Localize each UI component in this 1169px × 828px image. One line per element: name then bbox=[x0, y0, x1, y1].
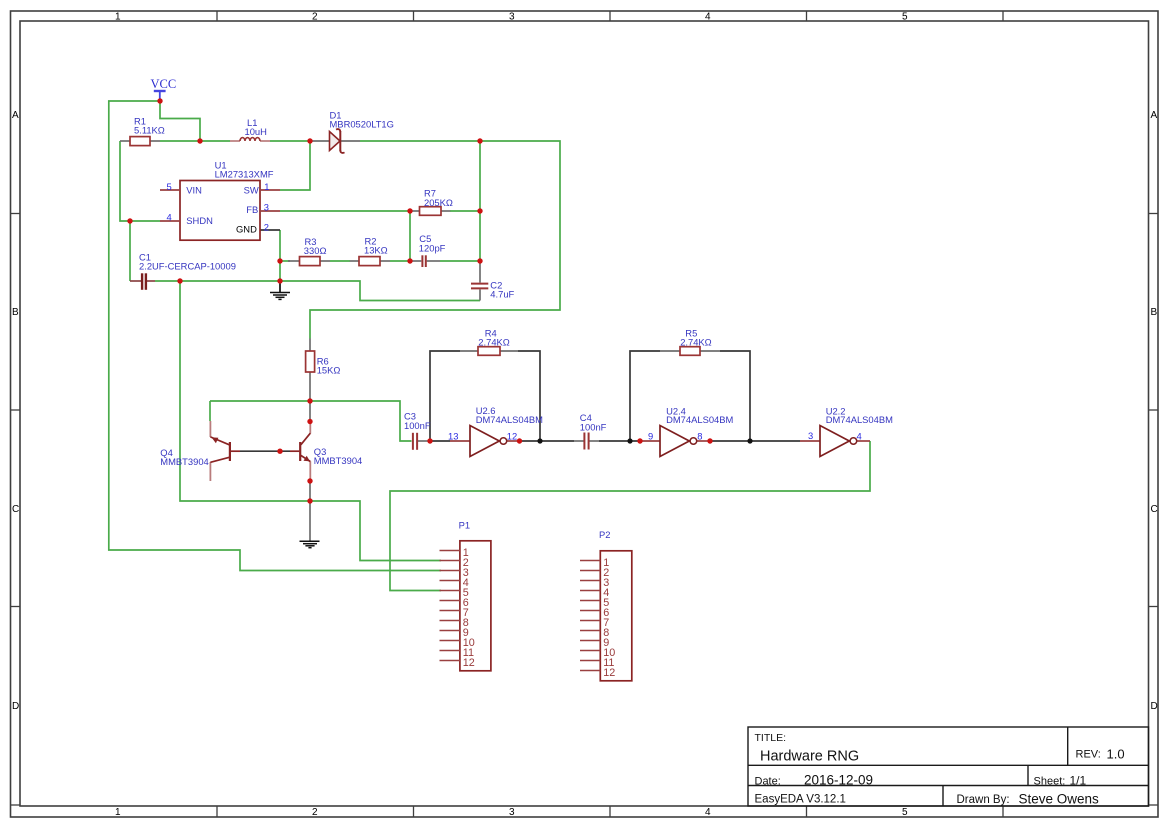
wire VCC elbow to R1 output node bbox=[160, 101, 200, 141]
svg-text:5: 5 bbox=[902, 807, 908, 818]
svg-text:100nF: 100nF bbox=[404, 420, 431, 431]
svg-text:B: B bbox=[12, 307, 19, 318]
svg-text:4.7uF: 4.7uF bbox=[490, 289, 514, 300]
wire Q rail y401 to C3 bbox=[210, 401, 412, 441]
resistor R4 bbox=[460, 327, 518, 355]
svg-text:3: 3 bbox=[808, 430, 813, 441]
svg-text:4: 4 bbox=[705, 12, 711, 23]
resistor R1 bbox=[120, 116, 165, 146]
transistor Q4 MMBT3904 bbox=[160, 421, 240, 481]
wire VCC to P1 pin3 long route bbox=[109, 101, 441, 571]
wire R3 node segment bbox=[280, 260, 290, 262]
node C5 right junction bbox=[477, 258, 482, 263]
svg-text:1: 1 bbox=[115, 807, 121, 818]
pin 1 SW of U1 bbox=[244, 181, 280, 195]
transistor Q3 MMBT3904 bbox=[290, 422, 362, 482]
svg-text:330Ω: 330Ω bbox=[304, 245, 327, 256]
svg-text:DM74ALS04BM: DM74ALS04BM bbox=[476, 414, 543, 425]
svg-text:2: 2 bbox=[312, 12, 318, 23]
wire R5 feedback loop left bbox=[630, 351, 660, 441]
svg-text:12: 12 bbox=[463, 657, 475, 669]
svg-text:Drawn By:: Drawn By: bbox=[957, 794, 1010, 806]
capacitor C2 bbox=[471, 261, 515, 301]
node R2-C5 junction bbox=[407, 258, 412, 263]
svg-text:1: 1 bbox=[115, 12, 121, 23]
svg-text:Steve Owens: Steve Owens bbox=[1019, 792, 1100, 807]
inductor L1 bbox=[230, 117, 270, 141]
svg-text:2: 2 bbox=[312, 807, 318, 818]
capacitor C1 bbox=[130, 252, 236, 290]
node R5 loop right junction bbox=[747, 438, 752, 443]
svg-text:FB: FB bbox=[246, 204, 258, 215]
svg-text:Date:: Date: bbox=[755, 775, 781, 787]
inverter U2.4 DM74ALS04BM bbox=[640, 405, 734, 456]
svg-text:3: 3 bbox=[509, 12, 515, 23]
wire C4 to U2.4 input bbox=[599, 440, 640, 442]
wire L1 to D1 node bbox=[270, 140, 310, 142]
inverter U2.6 DM74ALS04BM bbox=[450, 405, 543, 457]
node R7 output junction bbox=[477, 208, 482, 213]
node gnd rail junction bbox=[307, 498, 312, 503]
svg-text:2: 2 bbox=[264, 221, 269, 232]
wire R4 feedback loop left bbox=[430, 351, 460, 441]
svg-text:13: 13 bbox=[448, 430, 458, 441]
wire SW pin elbow bbox=[280, 141, 310, 190]
node Q3 collector junction bbox=[307, 419, 312, 424]
svg-text:2016-12-09: 2016-12-09 bbox=[804, 773, 873, 788]
svg-text:4: 4 bbox=[857, 430, 862, 441]
wire C3 node to U2.6 input bbox=[430, 440, 450, 442]
pin 3 FB of U1 bbox=[246, 201, 280, 215]
node U2.4 output junction bbox=[707, 438, 712, 443]
wire U2.4 output to U2.2 input bbox=[710, 440, 800, 442]
svg-text:DM74ALS04BM: DM74ALS04BM bbox=[826, 414, 893, 425]
wire R2 to C5 bbox=[390, 260, 410, 262]
node C3 right junction bbox=[427, 438, 432, 443]
svg-text:Sheet:: Sheet: bbox=[1034, 775, 1066, 787]
node Q3 base junction bbox=[277, 449, 282, 454]
svg-text:5: 5 bbox=[167, 181, 172, 192]
svg-text:GND: GND bbox=[236, 224, 257, 235]
wire Q4 emitter up bbox=[209, 401, 211, 421]
node R5 loop left junction bbox=[627, 438, 632, 443]
svg-text:4: 4 bbox=[167, 211, 172, 222]
svg-text:B: B bbox=[1151, 307, 1158, 318]
svg-text:1: 1 bbox=[264, 181, 269, 192]
node R4 loop junction bbox=[537, 438, 542, 443]
wire R5 feedback loop right bbox=[720, 351, 750, 441]
node Q3 emitter junction bbox=[307, 478, 312, 483]
svg-text:120pF: 120pF bbox=[419, 242, 446, 253]
wire Q4 base to Q3 base bbox=[240, 450, 290, 452]
svg-text:8: 8 bbox=[697, 431, 702, 442]
svg-text:A: A bbox=[1151, 110, 1158, 121]
wire C1 line and C2 bottom return bbox=[155, 281, 480, 301]
inverter U2.2 DM74ALS04BM bbox=[800, 406, 893, 457]
wire C1 node down to GND rail and P1 pin2 bbox=[180, 281, 441, 561]
svg-text:D: D bbox=[1151, 701, 1158, 712]
wire FB to R7 bbox=[280, 210, 410, 212]
svg-text:D: D bbox=[12, 701, 19, 712]
wire GND pin elbow down bbox=[279, 230, 281, 281]
node L1-D1 junction bbox=[307, 138, 312, 143]
svg-text:MBR0520LT1G: MBR0520LT1G bbox=[330, 118, 394, 129]
wire U2.2 output to P1 pin5 bbox=[390, 441, 870, 591]
svg-text:P1: P1 bbox=[459, 520, 470, 531]
node FB-R7 junction bbox=[407, 208, 412, 213]
capacitor C4 bbox=[574, 412, 607, 450]
node SHDN junction bbox=[127, 218, 132, 223]
ground at Q3 emitter rail bbox=[300, 501, 320, 548]
resistor R2 bbox=[350, 236, 390, 266]
svg-text:DM74ALS04BM: DM74ALS04BM bbox=[666, 414, 733, 425]
node U2.4 input junction bbox=[637, 438, 642, 443]
wire U2.6 output to C4 bbox=[520, 440, 575, 442]
svg-text:5.11KΩ: 5.11KΩ bbox=[134, 125, 165, 136]
svg-text:VIN: VIN bbox=[186, 184, 202, 195]
svg-text:10uH: 10uH bbox=[245, 126, 267, 137]
svg-text:C: C bbox=[12, 504, 19, 515]
svg-text:Hardware RNG: Hardware RNG bbox=[760, 749, 859, 765]
node output top junction bbox=[477, 138, 482, 143]
svg-text:205KΩ: 205KΩ bbox=[424, 197, 453, 208]
svg-text:VCC: VCC bbox=[151, 77, 177, 91]
svg-text:P2: P2 bbox=[599, 529, 610, 540]
svg-text:C: C bbox=[1151, 504, 1158, 515]
svg-text:EasyEDA V3.12.1: EasyEDA V3.12.1 bbox=[755, 794, 846, 806]
node VCC junction bbox=[157, 98, 162, 103]
svg-text:REV:: REV: bbox=[1076, 748, 1101, 760]
svg-text:2.74KΩ: 2.74KΩ bbox=[478, 337, 510, 348]
svg-text:2.74KΩ: 2.74KΩ bbox=[680, 337, 712, 348]
power flag VCC bbox=[151, 77, 177, 101]
node C1 gnd junction bbox=[277, 278, 282, 283]
wire SHDN junction down to C1 bbox=[129, 221, 131, 281]
svg-text:4: 4 bbox=[705, 807, 711, 818]
wire D1 to output rail and down to R6 bbox=[310, 141, 560, 339]
wire Q3 emitter junction to gnd rail bbox=[309, 481, 311, 501]
svg-text:LM27313XMF: LM27313XMF bbox=[215, 169, 274, 180]
node R6 bottom junction bbox=[307, 398, 312, 403]
svg-text:SHDN: SHDN bbox=[186, 215, 213, 226]
resistor R7 bbox=[410, 188, 453, 216]
svg-text:1/1: 1/1 bbox=[1070, 774, 1087, 788]
svg-text:15KΩ: 15KΩ bbox=[317, 365, 341, 376]
svg-text:2.2UF-CERCAP-10009: 2.2UF-CERCAP-10009 bbox=[139, 261, 236, 272]
svg-text:12: 12 bbox=[603, 667, 615, 679]
svg-text:9: 9 bbox=[648, 431, 653, 442]
wire Q3 collector node to junction bbox=[309, 401, 311, 422]
connector P2 bbox=[580, 529, 632, 681]
svg-text:1.0: 1.0 bbox=[1107, 746, 1125, 761]
TITLE BLOCK bbox=[748, 727, 1149, 806]
svg-text:100nF: 100nF bbox=[580, 421, 607, 432]
svg-text:3: 3 bbox=[509, 807, 515, 818]
wire output vertical x480 bbox=[479, 141, 481, 261]
svg-text:SW: SW bbox=[244, 184, 259, 195]
wire R1 to L1 bbox=[160, 140, 230, 142]
svg-text:TITLE:: TITLE: bbox=[755, 732, 787, 744]
svg-text:5: 5 bbox=[902, 12, 908, 23]
capacitor C5 bbox=[412, 233, 446, 267]
wire R7 right to output node bbox=[450, 210, 480, 212]
pin 4 SHDN of U1 bbox=[160, 211, 213, 226]
capacitor C3 bbox=[404, 410, 431, 449]
svg-text:3: 3 bbox=[264, 201, 269, 212]
wire FB node down x410 bbox=[409, 211, 411, 261]
resistor R6 bbox=[306, 339, 341, 402]
pin 5 VIN of U1 bbox=[160, 181, 202, 195]
node R3 left junction bbox=[277, 258, 282, 263]
node U2.6 output junction bbox=[517, 438, 522, 443]
resistor R3 bbox=[288, 236, 330, 266]
wire R4 feedback loop right bbox=[518, 351, 540, 441]
wire C5 to x480 bbox=[440, 260, 480, 262]
wire R3 to R2 bbox=[330, 260, 350, 262]
svg-text:MMBT3904: MMBT3904 bbox=[160, 456, 208, 467]
svg-text:12: 12 bbox=[507, 431, 517, 442]
wire U1 GND pin bbox=[260, 229, 280, 231]
node C1 right junction bbox=[177, 278, 182, 283]
op-amp U1 LM27313XMF box bbox=[180, 159, 274, 240]
ground under U1 bbox=[270, 281, 290, 299]
node R1-L1 junction bbox=[197, 138, 202, 143]
pin 2 GND of U1 bbox=[236, 221, 269, 234]
svg-text:MMBT3904: MMBT3904 bbox=[314, 455, 362, 466]
diode D1 bbox=[310, 109, 394, 153]
connector P1 bbox=[440, 520, 491, 671]
svg-text:A: A bbox=[12, 110, 19, 121]
wire R1 left pin down to SHDN bbox=[120, 141, 160, 221]
resistor R5 bbox=[660, 327, 720, 355]
svg-text:13KΩ: 13KΩ bbox=[364, 245, 388, 256]
